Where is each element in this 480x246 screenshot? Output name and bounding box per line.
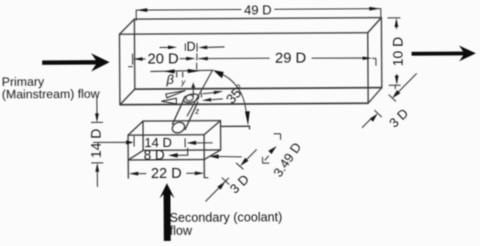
primary flow thick arrow bbox=[42, 53, 110, 72]
plenum depth leader arrow right bbox=[209, 154, 219, 158]
exit flow thick arrow bbox=[412, 45, 476, 61]
hole axis line to apex bbox=[187, 70, 213, 116]
dimension 3D duct depth bbox=[362, 73, 417, 127]
dimension 20D bbox=[128, 53, 196, 66]
dimension 3.49D hole length bbox=[262, 134, 280, 163]
plenum diagonal bottom-right bbox=[204, 150, 221, 160]
surface flow arrow upper-right of hole bbox=[203, 93, 214, 94]
plenum front-right edge extension bbox=[203, 160, 205, 179]
surface flow arrow upper-left of hole bbox=[161, 90, 223, 104]
svg-text:49 D: 49 D bbox=[244, 2, 272, 17]
plenum diagonal top-right bbox=[204, 121, 221, 135]
duct corner diagonal bottom-right bbox=[368, 88, 382, 104]
duct corner diagonal top-left bbox=[119, 19, 134, 34]
svg-text:(Mainstream) flow: (Mainstream) flow bbox=[2, 87, 100, 102]
dimension 49D bbox=[136, 7, 381, 21]
main duct front face bbox=[119, 33, 368, 105]
svg-text:3 D: 3 D bbox=[227, 172, 252, 197]
svg-text:3 D: 3 D bbox=[386, 106, 411, 131]
svg-text:22 D: 22 D bbox=[151, 166, 182, 182]
x-axis tick near hole bbox=[200, 93, 202, 98]
y-axis arrow bbox=[191, 82, 195, 97]
dimension 29D bbox=[198, 56, 376, 67]
dimension 8D leader bbox=[168, 147, 242, 159]
plenum diagonal bottom-left bbox=[128, 150, 143, 160]
35deg leader arrowhead at apex bbox=[213, 70, 224, 78]
dimension 3D plenum depth bbox=[205, 149, 257, 201]
35deg angle arc bbox=[221, 74, 246, 112]
svg-text:29 D: 29 D bbox=[275, 51, 306, 67]
svg-text:y: y bbox=[180, 78, 186, 87]
svg-text:3.49 D: 3.49 D bbox=[270, 140, 304, 180]
hole centerline extension bbox=[196, 53, 198, 60]
main duct back face bbox=[134, 18, 381, 90]
cooling hole cylinder right wall bbox=[185, 101, 198, 130]
plenum back face bbox=[143, 121, 221, 151]
hole exit ellipse on duct floor bbox=[183, 92, 200, 104]
duct floor front edge emphasized bbox=[120, 103, 368, 105]
dimension 14D vertical bbox=[91, 97, 104, 187]
duct corner diagonal top-right bbox=[368, 18, 382, 33]
secondary flow thick arrow bbox=[159, 183, 174, 241]
svg-text:flow: flow bbox=[170, 224, 193, 238]
dimension D (hole diameter) bbox=[160, 43, 225, 69]
svg-text:Secondary (coolant): Secondary (coolant) bbox=[170, 210, 283, 225]
beta left arrowhead bbox=[164, 69, 175, 73]
svg-text:β: β bbox=[165, 72, 174, 87]
beta angle tick marks bbox=[177, 72, 202, 98]
tick on 3D plenum line lower bbox=[222, 178, 229, 185]
surface flow arrow lower-left of hole bbox=[161, 98, 176, 104]
svg-text:20 D: 20 D bbox=[147, 52, 178, 68]
svg-text:10 D: 10 D bbox=[389, 37, 405, 67]
svg-text:D: D bbox=[186, 40, 195, 54]
duct corner diagonal bottom-left bbox=[120, 89, 135, 105]
svg-text:z: z bbox=[194, 107, 199, 116]
plenum front-left edge extension bbox=[127, 160, 129, 179]
dimension 14D horizontal bbox=[93, 136, 213, 148]
duct floor back edge emphasized bbox=[135, 88, 382, 90]
svg-text:14 D: 14 D bbox=[87, 129, 103, 159]
dimension 22D bbox=[129, 171, 209, 178]
35deg arc arrowhead bbox=[245, 111, 250, 126]
beta right arrowhead bbox=[188, 69, 200, 73]
plenum diagonal top-left bbox=[128, 121, 143, 135]
cooling hole cylinder left wall bbox=[172, 96, 185, 125]
hole exit inner bore circle bbox=[185, 94, 194, 102]
plenum front face bbox=[128, 135, 204, 160]
beta reference horizontal line bbox=[150, 70, 213, 71]
hole inlet ellipse on plenum top bbox=[171, 120, 187, 135]
dimension 10D bbox=[387, 18, 400, 89]
svg-text:8 D: 8 D bbox=[144, 147, 165, 162]
surface flow arrow lower-right of hole bbox=[212, 98, 223, 101]
35deg reference line (plenum top extended) bbox=[221, 126, 250, 129]
